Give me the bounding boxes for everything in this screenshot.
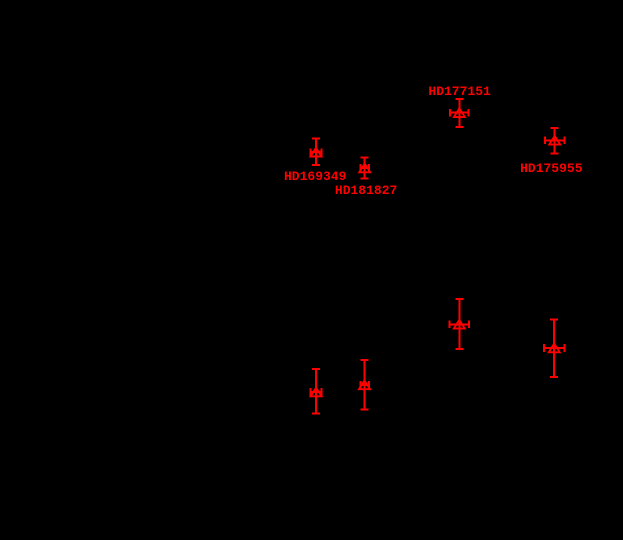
svg-text:HD181827: HD181827 <box>335 183 397 198</box>
data point P2-HD181827: error bars + open triangle <box>359 360 370 410</box>
svg-text:HD169349: HD169349 <box>284 169 347 184</box>
svg-text:HD175955: HD175955 <box>520 161 583 176</box>
data point P2-HD175955: error bars + open triangle <box>544 320 564 378</box>
data point P2-HD177151: error bars + open triangle <box>450 299 469 349</box>
data point HD181827: error bars + open triangle <box>359 158 370 179</box>
svg-text:HD177151: HD177151 <box>428 84 491 99</box>
data point P2-HD169349: error bars + open triangle <box>311 369 322 414</box>
data point HD169349: error bars + open triangle <box>311 139 322 165</box>
data point HD175955: error bars + open triangle <box>545 128 565 154</box>
data point HD177151: error bars + open triangle <box>450 99 469 127</box>
